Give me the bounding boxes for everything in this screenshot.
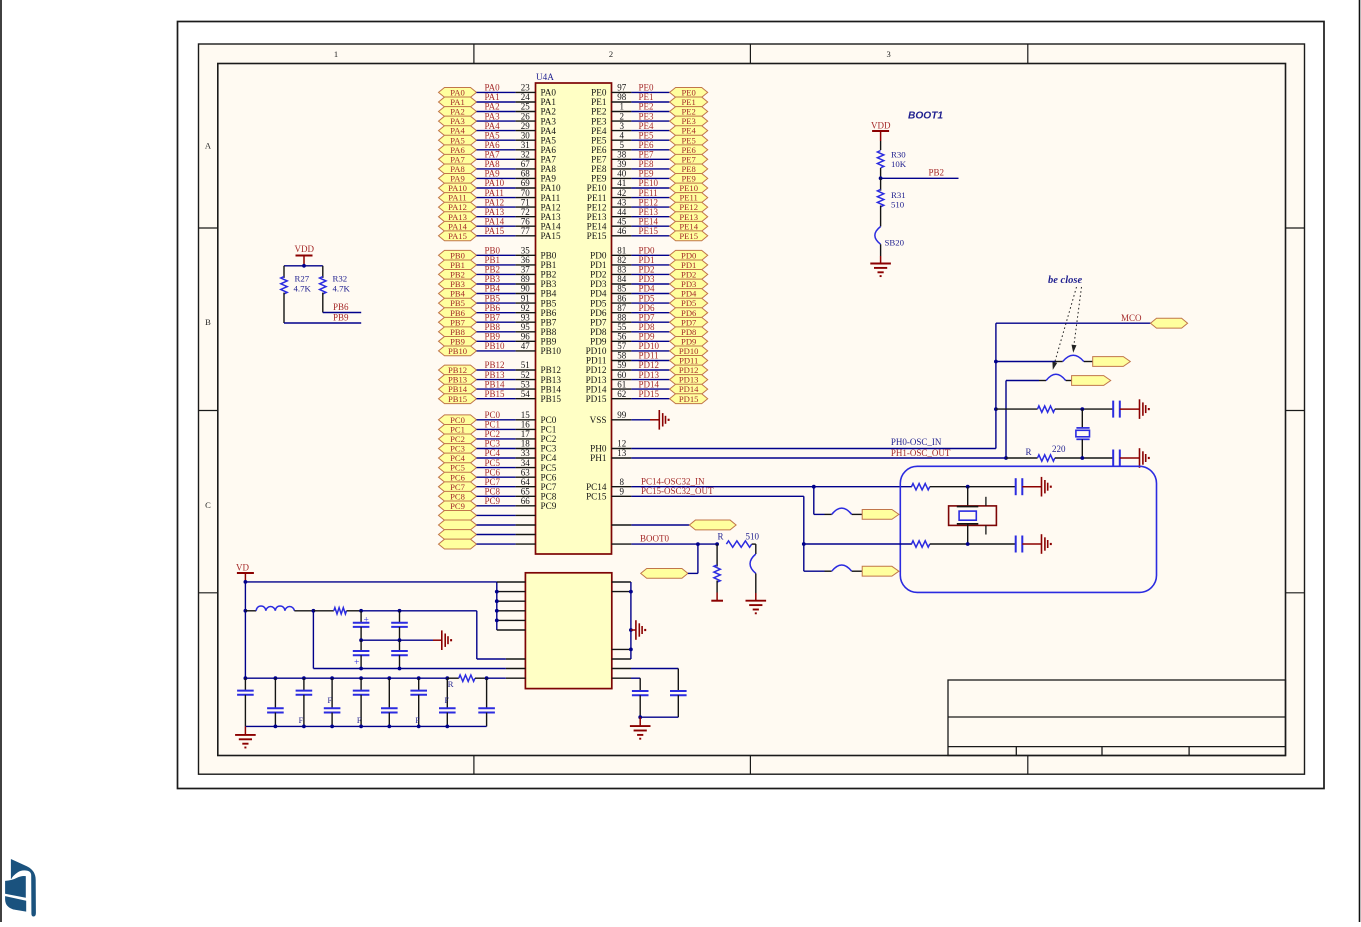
- pin row PC5 (pin 34) with wire and port flag: [439, 458, 557, 473]
- svg-text:PC2: PC2: [485, 429, 501, 439]
- svg-text:PB5: PB5: [541, 298, 557, 308]
- unlabeled left pin row 3 with empty port flag: [439, 530, 536, 540]
- pin row PE10 (pin 41) with wire and port flag: [587, 178, 708, 193]
- svg-text:PC5: PC5: [541, 463, 557, 473]
- svg-text:PD8: PD8: [681, 327, 696, 337]
- svg-text:57: 57: [617, 341, 627, 351]
- svg-text:52: 52: [521, 370, 530, 380]
- svg-text:65: 65: [521, 487, 531, 497]
- pin PC15 (pin 9) wire, net PC15-OSC32_OUT: [586, 486, 804, 501]
- svg-text:PA1: PA1: [450, 97, 465, 107]
- svg-text:U4A: U4A: [536, 72, 554, 82]
- svg-text:PA4: PA4: [450, 126, 465, 136]
- svg-text:PA7: PA7: [485, 150, 501, 160]
- svg-text:71: 71: [521, 197, 530, 207]
- svg-text:68: 68: [521, 169, 531, 179]
- svg-text:PA2: PA2: [450, 107, 465, 117]
- svg-text:12: 12: [617, 439, 626, 449]
- inner drawing frame: [218, 64, 1286, 756]
- svg-text:5: 5: [620, 140, 625, 150]
- solder bridge row 2 (HSE bypass): [1006, 374, 1072, 380]
- pin row PC1 (pin 16) with wire and port flag: [439, 420, 557, 435]
- capacitor 4: [391, 640, 408, 668]
- svg-text:PB9: PB9: [333, 312, 349, 322]
- svg-text:PE3: PE3: [591, 116, 607, 126]
- svg-text:PB1: PB1: [485, 255, 501, 265]
- svg-text:PD11: PD11: [586, 356, 607, 366]
- svg-text:90: 90: [521, 284, 531, 294]
- svg-text:PA9: PA9: [485, 169, 501, 179]
- resistor (8MHz osc top row): [996, 406, 1113, 412]
- svg-text:PA8: PA8: [541, 164, 557, 174]
- junction after inductor: [312, 609, 316, 613]
- bypass capacitor 4: [324, 678, 341, 726]
- wire lower row to block: [313, 611, 525, 671]
- resistor (32k bottom row): [912, 541, 1016, 547]
- svg-text:SB20: SB20: [885, 237, 905, 247]
- pin VSS (pin 99) with wire: [590, 410, 660, 425]
- resistor (32k top row): [912, 484, 1016, 490]
- junction on BOOT0 net: [696, 542, 700, 546]
- svg-text:98: 98: [617, 92, 627, 102]
- svg-text:220: 220: [1052, 444, 1066, 454]
- svg-text:PA15: PA15: [485, 226, 505, 236]
- svg-text:25: 25: [521, 102, 531, 112]
- earth ground (BOOT1): [870, 264, 891, 277]
- svg-text:PC4: PC4: [485, 448, 501, 458]
- pin row PD6 (pin 87) with wire and port flag: [590, 303, 708, 318]
- svg-text:PE8: PE8: [639, 159, 655, 169]
- power symbol VDD (BOOT1): [871, 120, 891, 150]
- svg-text:41: 41: [617, 178, 626, 188]
- junction VDD node: [302, 264, 306, 268]
- pin row PE6 (pin 5) with wire and port flag: [591, 140, 708, 155]
- svg-text:PD12: PD12: [679, 365, 699, 375]
- svg-text:PA7: PA7: [541, 155, 557, 165]
- pin row PD12 (pin 59) with wire and port flag: [586, 360, 708, 375]
- svg-text:PB5: PB5: [485, 293, 501, 303]
- svg-text:PC0: PC0: [450, 415, 465, 425]
- svg-text:PD0: PD0: [681, 250, 696, 260]
- svg-text:PC2: PC2: [450, 434, 465, 444]
- svg-text:32: 32: [521, 150, 530, 160]
- svg-text:PC7: PC7: [450, 482, 466, 492]
- svg-text:PE13: PE13: [679, 212, 698, 222]
- earth ground below solder bridge: [746, 601, 767, 614]
- svg-text:PA14: PA14: [448, 221, 467, 231]
- svg-text:PD14: PD14: [679, 384, 699, 394]
- svg-text:47: 47: [521, 341, 531, 351]
- svg-text:PA12: PA12: [448, 202, 467, 212]
- svg-text:PA0: PA0: [450, 88, 465, 98]
- wire net MCO with label: [996, 313, 1151, 323]
- capacitor (8MHz osc bottom): [1113, 450, 1139, 467]
- svg-text:PD14: PD14: [586, 384, 607, 394]
- svg-text:PE7: PE7: [682, 154, 697, 164]
- svg-text:PA0: PA0: [541, 88, 557, 98]
- pin row PE12 (pin 43) with wire and port flag: [587, 197, 708, 212]
- pin row PE9 (pin 40) with wire and port flag: [591, 169, 708, 184]
- junction PH1 row at vertical: [1004, 456, 1008, 460]
- svg-text:PD13: PD13: [679, 375, 699, 385]
- resistor R31 510: [877, 178, 905, 226]
- svg-text:86: 86: [617, 293, 627, 303]
- pin row PB1 (pin 36) with wire and port flag: [439, 255, 557, 270]
- svg-text:PE13: PE13: [639, 207, 659, 217]
- svg-text:PE1: PE1: [591, 97, 607, 107]
- pin row PB13 (pin 52) with wire and port flag: [439, 370, 562, 385]
- svg-text:PB4: PB4: [450, 289, 466, 299]
- pin row PC4 (pin 33) with wire and port flag: [439, 448, 557, 463]
- pin row PA0 (pin 23) with wire and port flag: [439, 83, 557, 98]
- svg-text:PE3: PE3: [639, 111, 655, 121]
- svg-text:PE6: PE6: [682, 145, 697, 155]
- mid ground rail: [359, 638, 442, 642]
- svg-text:PH0-OSC_IN: PH0-OSC_IN: [891, 437, 942, 447]
- svg-text:PD11: PD11: [679, 356, 698, 366]
- svg-text:PD7: PD7: [639, 312, 656, 322]
- wire rail into block pin: [487, 677, 526, 679]
- pin row PB10 (pin 47) with wire and port flag: [439, 341, 562, 356]
- svg-text:PC3: PC3: [541, 444, 557, 454]
- svg-text:17: 17: [521, 429, 531, 439]
- svg-text:PD2: PD2: [639, 265, 655, 275]
- svg-text:77: 77: [521, 226, 531, 236]
- pin PC14 (pin 8) wire, net PC14-OSC32_IN: [586, 477, 912, 492]
- svg-text:PB6: PB6: [450, 308, 466, 318]
- svg-text:37: 37: [521, 265, 531, 275]
- bypass capacitor 1: [237, 678, 254, 726]
- svg-text:PE14: PE14: [639, 216, 659, 226]
- svg-text:PB8: PB8: [485, 322, 501, 332]
- pin row PA13 (pin 72) with wire and port flag: [439, 207, 561, 222]
- svg-text:85: 85: [617, 284, 627, 294]
- svg-text:76: 76: [521, 216, 531, 226]
- svg-text:PC7: PC7: [541, 482, 557, 492]
- svg-text:PA11: PA11: [541, 193, 561, 203]
- svg-text:PC4: PC4: [450, 453, 466, 463]
- svg-text:1: 1: [620, 102, 625, 112]
- ground (power block right): [631, 620, 646, 640]
- svg-text:PA10: PA10: [485, 178, 505, 188]
- svg-text:PE15: PE15: [639, 226, 659, 236]
- pin row PE14 (pin 45) with wire and port flag: [587, 216, 708, 231]
- svg-text:83: 83: [617, 265, 627, 275]
- svg-text:PC4: PC4: [541, 453, 557, 463]
- svg-text:PA13: PA13: [541, 212, 561, 222]
- svg-text:PA1: PA1: [541, 97, 557, 107]
- svg-text:PB12: PB12: [448, 365, 467, 375]
- pin row PB6 (pin 92) with wire and port flag: [439, 303, 557, 318]
- svg-text:PE0: PE0: [682, 88, 696, 98]
- pin row PC0 (pin 15) with wire and port flag: [439, 410, 557, 425]
- svg-text:PE9: PE9: [682, 174, 696, 184]
- pin row PC6 (pin 63) with wire and port flag: [439, 467, 557, 482]
- resistor R 510 (series, BOOT0): [718, 532, 760, 548]
- capacitor (right inner): [632, 691, 649, 717]
- svg-text:3: 3: [620, 121, 625, 131]
- junction on vertical bus at solder bridge 1: [994, 360, 998, 364]
- svg-text:PA6: PA6: [450, 145, 465, 155]
- svg-text:PC0: PC0: [485, 410, 501, 420]
- svg-text:510: 510: [891, 199, 905, 209]
- svg-text:PB2: PB2: [929, 168, 945, 178]
- svg-text:PA5: PA5: [485, 130, 501, 140]
- svg-text:PC5: PC5: [450, 463, 465, 473]
- pin row PB12 (pin 51) with wire and port flag: [439, 360, 562, 375]
- capacitor 2: [391, 611, 408, 640]
- svg-text:PB7: PB7: [485, 312, 501, 322]
- svg-text:PA9: PA9: [450, 174, 465, 184]
- svg-text:PD5: PD5: [681, 298, 696, 308]
- pin row PD15 (pin 62) with wire and port flag: [586, 389, 708, 404]
- svg-text:PB2: PB2: [485, 265, 501, 275]
- svg-text:PE6: PE6: [591, 145, 607, 155]
- pin row PA11 (pin 70) with wire and port flag: [439, 188, 561, 203]
- pin row PD3 (pin 84) with wire and port flag: [590, 274, 708, 289]
- svg-text:3: 3: [886, 49, 890, 59]
- svg-text:PC3: PC3: [450, 444, 465, 454]
- capacitor (right outer): [640, 691, 686, 717]
- pin row PE1 (pin 98) with wire and port flag: [591, 92, 708, 107]
- unlabeled left pin row 4 with empty port flag: [439, 539, 536, 549]
- svg-text:26: 26: [521, 111, 531, 121]
- capacitor (32k bottom): [1016, 536, 1042, 553]
- svg-text:24: 24: [521, 92, 531, 102]
- svg-text:72: 72: [521, 207, 530, 217]
- svg-text:PE8: PE8: [591, 164, 607, 174]
- svg-text:PB10: PB10: [485, 341, 506, 351]
- svg-text:70: 70: [521, 188, 531, 198]
- border row ticks right: [1286, 227, 1305, 229]
- svg-text:PE4: PE4: [682, 126, 697, 136]
- svg-text:F: F: [445, 696, 450, 705]
- svg-text:PC8: PC8: [541, 492, 557, 502]
- svg-text:PB14: PB14: [541, 384, 562, 394]
- wire net PB9: [284, 312, 361, 323]
- svg-text:PB14: PB14: [448, 384, 468, 394]
- svg-text:PE14: PE14: [679, 221, 698, 231]
- crystal 32.768kHz with case: [949, 487, 997, 544]
- svg-text:PB5: PB5: [450, 298, 465, 308]
- svg-text:PD1: PD1: [681, 260, 696, 270]
- svg-text:PD4: PD4: [681, 289, 697, 299]
- svg-text:VD: VD: [236, 563, 249, 573]
- pin row PA6 (pin 31) with wire and port flag: [439, 140, 557, 155]
- svg-text:81: 81: [617, 246, 626, 256]
- earth ground (power block): [630, 726, 651, 739]
- svg-text:R: R: [448, 679, 454, 689]
- pin row PC3 (pin 18) with wire and port flag: [439, 439, 557, 454]
- border column ticks top: [473, 44, 475, 64]
- svg-text:88: 88: [617, 312, 627, 322]
- svg-text:PE10: PE10: [639, 178, 659, 188]
- svg-text:PE12: PE12: [679, 202, 698, 212]
- svg-text:PB13: PB13: [541, 375, 562, 385]
- power block right pin fan: [612, 582, 633, 659]
- svg-text:1: 1: [334, 49, 338, 59]
- svg-text:96: 96: [521, 332, 531, 342]
- svg-text:PA11: PA11: [448, 193, 466, 203]
- unlabeled left pin row 2 with empty port flag: [439, 520, 536, 530]
- pin row PE4 (pin 3) with wire and port flag: [591, 121, 708, 136]
- pin row PB14 (pin 53) with wire and port flag: [439, 379, 562, 394]
- svg-text:PD3: PD3: [639, 274, 656, 284]
- pin row PE2 (pin 1) with wire and port flag: [591, 102, 708, 117]
- capacitor bank bottom rail: [245, 725, 486, 729]
- wire 32k bottom row: [804, 543, 912, 545]
- pin row PD0 (pin 81) with wire and port flag: [590, 246, 708, 261]
- pin row PC7 (pin 64) with wire and port flag: [439, 477, 557, 492]
- junction at ground node: [638, 715, 642, 719]
- svg-text:PD9: PD9: [681, 336, 696, 346]
- ground at VSS pin: [659, 410, 669, 430]
- ground (mid rail): [442, 630, 452, 650]
- svg-text:PA8: PA8: [450, 164, 465, 174]
- annotation arrow 1: [1072, 287, 1082, 353]
- arrow port flag (32k row 2): [862, 566, 899, 576]
- outer sheet frame: [178, 22, 1325, 789]
- svg-text:PD0: PD0: [590, 251, 607, 261]
- resistor R30 10K: [877, 149, 906, 178]
- svg-text:23: 23: [521, 83, 531, 93]
- port flag MCO: [1151, 318, 1188, 328]
- pin row PD9 (pin 56) with wire and port flag: [590, 332, 708, 347]
- svg-text:PD12: PD12: [639, 360, 660, 370]
- svg-text:PE3: PE3: [682, 116, 696, 126]
- svg-text:PA10: PA10: [541, 183, 561, 193]
- svg-text:PB9: PB9: [541, 337, 557, 347]
- svg-text:60: 60: [617, 370, 627, 380]
- svg-text:PE11: PE11: [680, 193, 698, 203]
- svg-text:C: C: [205, 500, 211, 510]
- unlabeled right pin row with empty port flag: [612, 520, 737, 530]
- pin row PC2 (pin 17) with wire and port flag: [439, 429, 557, 444]
- wire VD top rail to block: [245, 581, 496, 583]
- svg-text:PA12: PA12: [541, 202, 561, 212]
- svg-text:PA5: PA5: [450, 135, 465, 145]
- svg-text:PD15: PD15: [639, 389, 660, 399]
- title block: [948, 680, 1286, 756]
- svg-text:PC1: PC1: [450, 425, 465, 435]
- svg-text:PE5: PE5: [682, 135, 696, 145]
- svg-text:MCO: MCO: [1121, 313, 1142, 323]
- svg-text:87: 87: [617, 303, 627, 313]
- bypass capacitor 7: [410, 678, 427, 726]
- svg-text:PC14: PC14: [586, 482, 607, 492]
- svg-text:F: F: [415, 716, 420, 725]
- svg-text:PB1: PB1: [450, 260, 465, 270]
- middle sheet frame (beige sheet): [199, 44, 1305, 774]
- svg-text:PC6: PC6: [450, 472, 466, 482]
- svg-text:PB3: PB3: [485, 274, 501, 284]
- junction at crystal bottom: [1080, 456, 1084, 460]
- pin row PA7 (pin 32) with wire and port flag: [439, 150, 557, 165]
- resistor R 220 (PH1 row): [1006, 444, 1113, 461]
- svg-text:54: 54: [521, 389, 531, 399]
- svg-text:F: F: [357, 716, 362, 725]
- svg-text:PE5: PE5: [591, 135, 607, 145]
- svg-text:PA10: PA10: [448, 183, 467, 193]
- wire VDD to R27/R32: [284, 265, 323, 267]
- svg-text:PH1-OSC_OUT: PH1-OSC_OUT: [891, 448, 951, 458]
- svg-text:PA0: PA0: [485, 83, 501, 93]
- svg-text:53: 53: [521, 379, 531, 389]
- svg-text:B: B: [205, 317, 211, 327]
- svg-text:44: 44: [617, 207, 627, 217]
- pin row PE13 (pin 44) with wire and port flag: [587, 207, 708, 222]
- wire net PB2: [881, 168, 959, 179]
- junction at 32k crystal top: [966, 485, 970, 489]
- svg-text:PD10: PD10: [679, 346, 699, 356]
- svg-text:PD7: PD7: [681, 317, 697, 327]
- resistor R27 4.7K: [281, 266, 312, 323]
- svg-text:2: 2: [620, 111, 625, 121]
- wire PC14 branch down to bridge row: [813, 487, 815, 515]
- svg-text:PA14: PA14: [541, 221, 561, 231]
- svg-text:63: 63: [521, 467, 531, 477]
- svg-text:VSS: VSS: [590, 415, 607, 425]
- power block left pin fan: [495, 582, 526, 630]
- svg-text:PA12: PA12: [485, 197, 505, 207]
- svg-text:51: 51: [521, 360, 530, 370]
- svg-text:BOOT1: BOOT1: [908, 111, 943, 122]
- pin row PB15 (pin 54) with wire and port flag: [439, 389, 562, 404]
- svg-text:PB13: PB13: [485, 370, 506, 380]
- svg-text:PD10: PD10: [586, 346, 607, 356]
- unlabeled left pin row 1 with empty port flag: [439, 511, 536, 521]
- svg-text:PH1: PH1: [590, 453, 607, 463]
- svg-text:VDD: VDD: [871, 120, 891, 130]
- svg-text:PA6: PA6: [485, 140, 501, 150]
- svg-text:PC5: PC5: [485, 458, 501, 468]
- svg-text:VDD: VDD: [295, 244, 315, 254]
- ground (32k bottom): [1042, 534, 1052, 554]
- svg-text:PA2: PA2: [485, 102, 500, 112]
- crystal 8MHz: [1076, 409, 1090, 458]
- svg-text:PE10: PE10: [679, 183, 698, 193]
- wire block pin row to capacitor (right outer): [612, 669, 679, 692]
- svg-text:PB0: PB0: [541, 251, 557, 261]
- svg-text:PC14-OSC32_IN: PC14-OSC32_IN: [641, 477, 705, 487]
- svg-text:F: F: [328, 696, 333, 705]
- svg-text:36: 36: [521, 255, 531, 265]
- svg-text:PB13: PB13: [448, 375, 467, 385]
- pin row PA2 (pin 25) with wire and port flag: [439, 102, 557, 117]
- svg-text:PE15: PE15: [679, 231, 698, 241]
- pin row PA12 (pin 71) with wire and port flag: [439, 197, 561, 212]
- svg-text:84: 84: [617, 274, 627, 284]
- svg-text:PB0: PB0: [485, 246, 501, 256]
- pin row PB5 (pin 91) with wire and port flag: [439, 293, 557, 308]
- pin row PA3 (pin 26) with wire and port flag: [439, 111, 557, 126]
- wire block pin row to capacitor (right inner): [612, 678, 640, 691]
- svg-text:PC8: PC8: [485, 487, 501, 497]
- svg-text:PE2: PE2: [682, 107, 696, 117]
- wire MCO vertical bus: [995, 323, 997, 448]
- pin row PD1 (pin 82) with wire and port flag: [590, 255, 708, 270]
- bypass capacitor 2: [267, 678, 284, 726]
- svg-text:93: 93: [521, 312, 531, 322]
- svg-text:PE9: PE9: [639, 169, 655, 179]
- svg-text:PB1: PB1: [541, 260, 557, 270]
- wire rail to earth ground: [244, 726, 246, 735]
- svg-text:PE8: PE8: [682, 164, 696, 174]
- svg-text:PH0: PH0: [590, 444, 607, 454]
- svg-text:PC15: PC15: [586, 492, 607, 502]
- svg-text:PC8: PC8: [450, 491, 465, 501]
- bypass capacitor 9: [478, 678, 495, 726]
